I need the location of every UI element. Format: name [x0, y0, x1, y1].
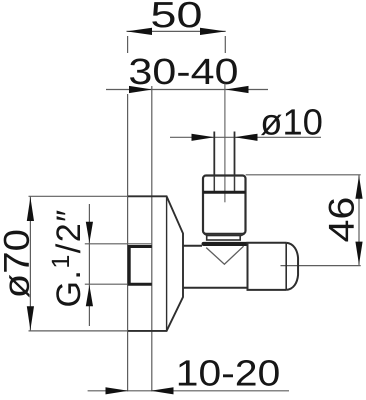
46 bottom arrow [355, 242, 362, 265]
outlet cap line [285, 243, 287, 290]
washer under bonnet [207, 236, 241, 241]
46 dimension line [358, 175, 360, 266]
dimension 50 text [152, 2, 200, 28]
diameter 70 bottom arrow [27, 306, 34, 330]
wall line [127, 94, 129, 392]
dimension diameter 10 line [170, 136, 321, 138]
supply pipe diameter 10 [214, 132, 234, 176]
diameter 70 top arrow [27, 197, 34, 221]
dimension 10-20 line [88, 390, 289, 392]
diameter 70 dimension line [29, 196, 31, 331]
dimension 10-20 left arrow [106, 387, 129, 394]
dimension 50 left extension stub [127, 36, 129, 53]
G 1/2 top extension line [85, 243, 152, 245]
outlet cap dome [286, 243, 298, 290]
outlet spout body [248, 243, 287, 290]
dimension 10-20 text [179, 360, 279, 386]
G 1/2 lower arrow pointing up [86, 285, 93, 306]
46 top extension line [246, 174, 361, 176]
valve bonnet [203, 176, 246, 234]
dimension 50 line [127, 30, 226, 32]
washer right chamfer [241, 234, 245, 236]
diameter 70 text [4, 231, 30, 298]
dimension 50 right extension stub [224, 36, 226, 53]
G 1/2 thread text [52, 210, 81, 305]
diameter 70 top extension line [29, 195, 128, 197]
valve seat V symbol [206, 246, 243, 264]
46 top arrow [355, 176, 362, 199]
46 text [329, 199, 354, 242]
diameter 70 bottom extension line [29, 330, 128, 332]
flange face edge line [166, 196, 168, 331]
body bottom edge [183, 287, 248, 289]
body shoulder band [204, 242, 247, 246]
dimension 30-40 right arrow [226, 86, 249, 93]
dimension 30-40 text [130, 59, 237, 85]
dimension diameter 10 right arrow [235, 134, 258, 141]
dimension 30-40 line [106, 89, 268, 91]
dimension 10-20 right arrow [151, 387, 174, 394]
pipe end extension line [151, 86, 153, 392]
G 1/2 socket thick outline [129, 247, 152, 285]
body top edge left of shoulder [183, 245, 202, 247]
dimension 50 left arrow [127, 28, 153, 35]
washer left chamfer [204, 234, 208, 236]
bonnet cap divider [203, 191, 246, 194]
G 1/2 upper arrow pointing down [86, 222, 93, 243]
G 1/2 dimension line [88, 204, 90, 326]
dimension diameter 10 left arrow [192, 134, 215, 141]
stem axis centerline [224, 84, 226, 203]
dimension 30-40 left arrow [129, 86, 152, 93]
pipe lines inside bonnet [214, 176, 234, 191]
dimension 50 right arrow [200, 28, 226, 35]
outlet axis centerline [281, 265, 361, 267]
wall flange rosette outline [128, 196, 183, 331]
dimension diameter 10 text [261, 109, 322, 135]
G 1/2 bottom extension line [85, 283, 129, 285]
